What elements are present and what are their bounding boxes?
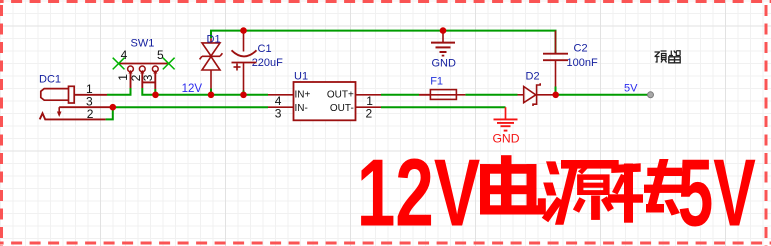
wire D2 to 5V port	[556, 94, 649, 96]
svg-text:SW1: SW1	[131, 37, 155, 49]
junction GND top	[440, 27, 447, 34]
U1 label IN-	[295, 103, 308, 114]
svg-text:100nF: 100nF	[567, 57, 598, 69]
capacitor C2	[543, 31, 568, 87]
U1 pin 4 number	[275, 94, 282, 108]
ground flag top	[431, 31, 456, 70]
fuse F1	[419, 76, 465, 100]
DC1 pin 2 number	[87, 107, 94, 121]
U1 pin 3 number	[275, 106, 282, 120]
wire SW1 pin2 to U1 IN+	[142, 88, 268, 95]
DC1 pin 1 number	[86, 82, 93, 96]
C2 value 100nF	[567, 57, 598, 69]
svg-text:3: 3	[141, 74, 155, 81]
svg-text:IN-: IN-	[295, 103, 308, 114]
wire U1 OUT- to GND	[381, 106, 506, 108]
U1 label OUT-	[330, 103, 354, 114]
junction D1 bottom	[208, 92, 215, 99]
SW1 pin 1 number	[116, 74, 130, 81]
ground flag bottom	[492, 107, 519, 145]
U1 pin 1 number	[366, 94, 373, 108]
wire 12V rail DC1 to SW1	[107, 88, 131, 95]
title glyph 源	[542, 160, 619, 225]
U1 label IN+	[295, 90, 311, 101]
diode D2	[518, 71, 554, 107]
svg-text:12V: 12V	[357, 141, 481, 246]
net label 5V	[624, 83, 638, 95]
svg-text:12V: 12V	[182, 83, 203, 95]
U1 label OUT+	[327, 90, 354, 101]
title glyph 转	[608, 159, 685, 223]
note text 预留	[655, 51, 681, 63]
junction D2 C2	[552, 92, 559, 99]
svg-text:D1: D1	[207, 34, 221, 46]
TVS diode D1	[200, 34, 223, 89]
title text 5V	[678, 141, 756, 246]
svg-text:D2: D2	[526, 71, 540, 83]
border bottom	[0, 242, 771, 245]
title text 12V	[357, 141, 481, 246]
wire C2 bottom	[555, 87, 557, 93]
junction DC1 pins	[110, 104, 117, 111]
regulator U1	[268, 71, 381, 121]
svg-text:5V: 5V	[678, 141, 756, 246]
svg-text:C1: C1	[258, 43, 272, 55]
svg-text:4: 4	[121, 48, 128, 62]
C1 value 220uF	[252, 57, 283, 69]
SW1 pin 4 number	[121, 48, 128, 62]
SW1 pin 5 number	[157, 48, 164, 62]
svg-text:OUT+: OUT+	[327, 90, 354, 101]
svg-text:C2: C2	[574, 43, 588, 55]
svg-text:F1: F1	[430, 76, 443, 88]
svg-text:GND: GND	[492, 131, 519, 145]
wire D1 bottom	[210, 89, 212, 95]
svg-text:2: 2	[87, 107, 94, 121]
border left	[0, 0, 3, 246]
net port 5V open dot	[648, 92, 654, 98]
junction SW1 out	[152, 92, 159, 99]
wire U1 OUT+ to F1	[381, 94, 419, 96]
wire SW1 pin3 drop	[154, 89, 156, 95]
wire C1 bottom	[243, 91, 245, 95]
svg-text:GND: GND	[431, 58, 456, 70]
svg-text:IN+: IN+	[295, 90, 311, 101]
switch SW1	[119, 37, 169, 89]
title glyph 电	[480, 155, 546, 214]
svg-text:2: 2	[366, 107, 373, 121]
DC1 pin 3 number	[86, 94, 93, 108]
border right	[765, 0, 768, 246]
connector DC1	[39, 73, 113, 119]
SW1 pin 2 number	[129, 74, 143, 81]
junction C1 top	[240, 27, 247, 34]
wire F1 to D2	[465, 94, 517, 96]
svg-text:5: 5	[157, 48, 164, 62]
wire DC1 pin2/3 to U1 IN-	[106, 107, 268, 119]
svg-text:U1: U1	[294, 71, 308, 83]
svg-text:3: 3	[275, 106, 282, 120]
SW1 no-connect X right	[163, 58, 175, 70]
C1 ref label	[258, 43, 272, 55]
SW1 pin 3 number	[141, 74, 155, 81]
capacitor C1	[232, 31, 257, 91]
wire top rail	[211, 31, 556, 54]
net label 12V	[182, 83, 203, 95]
C2 ref label	[574, 43, 588, 55]
svg-text:DC1: DC1	[39, 73, 61, 85]
svg-text:5V: 5V	[624, 83, 638, 95]
svg-text:1: 1	[116, 74, 130, 81]
svg-text:OUT-: OUT-	[330, 103, 354, 114]
SW1 no-connect X left	[113, 58, 125, 70]
U1 pin 2 number	[366, 107, 373, 121]
border top	[0, 0, 771, 3]
junction C1 bottom	[240, 92, 247, 99]
